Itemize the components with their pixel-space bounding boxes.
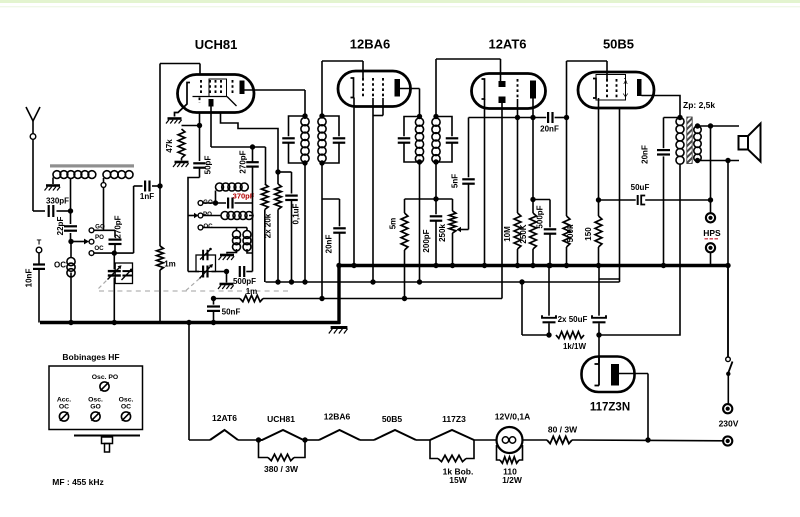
node bus 50uF1	[546, 263, 551, 268]
wire 50B5 screen pin	[619, 108, 621, 282]
svg-text:Osc.: Osc.	[119, 397, 134, 404]
svg-text:50pF: 50pF	[204, 156, 213, 175]
wire osc varcap row	[188, 216, 227, 272]
wire heater 6	[523, 439, 548, 441]
coil feedback left	[227, 228, 241, 254]
resistor 20k right	[263, 184, 281, 282]
node varcap top	[112, 250, 117, 255]
resistor 20k left	[261, 147, 268, 282]
svg-text:Acc.: Acc.	[57, 397, 71, 404]
tube 50B5 envelope	[578, 72, 654, 108]
svg-text:380 / 3W: 380 / 3W	[264, 464, 299, 474]
resistor 47k	[165, 126, 200, 161]
tap circle	[101, 178, 106, 187]
coil oscillator PO	[203, 212, 253, 220]
node anode junction	[530, 115, 535, 120]
resistor 80/3W	[547, 425, 578, 444]
node OC coil to bus	[68, 320, 73, 325]
node AVC IFT1	[319, 296, 324, 301]
node 150 bus	[596, 263, 601, 268]
gang dashed diagonal ant	[99, 280, 108, 289]
coil L1 antenna	[53, 171, 96, 184]
svg-text:22pF: 22pF	[56, 217, 65, 236]
svg-text:20nF: 20nF	[540, 125, 559, 134]
node screen bypass	[275, 169, 280, 174]
wire UCH81 anode	[245, 90, 306, 117]
UCH81 cathode	[175, 83, 191, 117]
svg-text:1k/1W: 1k/1W	[563, 342, 587, 351]
svg-text:330pF: 330pF	[46, 197, 69, 206]
12AT6 grid	[517, 79, 519, 99]
trimmer capacitor osc	[200, 248, 212, 261]
svg-text:500k: 500k	[566, 224, 575, 242]
node 12BA6 screen	[370, 279, 375, 284]
svg-text:117Z3: 117Z3	[442, 414, 466, 424]
rail B+ row	[266, 281, 620, 283]
capacitor 1nF	[134, 181, 160, 202]
wire secondary top	[695, 123, 739, 128]
node bus right end	[725, 263, 730, 268]
bobinages mount	[74, 436, 140, 453]
node varcap to bus	[112, 320, 117, 325]
ground feedback coil	[219, 255, 235, 260]
node IFT2 secondary top	[433, 114, 438, 119]
node 1nF junction	[157, 183, 162, 188]
capacitor 500pF AF	[533, 200, 556, 266]
capacitor 500pF osc	[233, 266, 256, 286]
tube UCH81 envelope	[178, 75, 255, 113]
node 12BA6 cathode bus	[351, 263, 356, 268]
wire 12AT6 grid pin	[517, 99, 519, 118]
capacitor main CV2	[200, 264, 214, 279]
IFT1 secondary coil	[318, 118, 326, 163]
IFT2 secondary coil	[432, 118, 440, 163]
svg-text:12BA6: 12BA6	[350, 37, 390, 52]
wire UCH81 screen pin	[221, 113, 279, 185]
capacitor 270pF antenna	[109, 215, 123, 244]
capacitor 22pF	[56, 211, 77, 242]
node anode transformer top	[677, 115, 682, 120]
svg-text:GO: GO	[95, 223, 105, 230]
wire to node	[57, 210, 71, 212]
12AT6 anode	[530, 81, 536, 99]
node IFT1 secondary bottom	[319, 160, 324, 165]
node 500k bus	[564, 263, 569, 268]
UCH81 separator	[193, 97, 237, 107]
switch contact GO ant	[89, 223, 105, 232]
svg-text:1/2W: 1/2W	[502, 475, 523, 485]
wire coil tap	[70, 178, 72, 211]
wire 50B5 grid top	[567, 61, 608, 118]
capacitor 50uF filter 1	[542, 266, 556, 336]
12AT6 cathode	[482, 79, 485, 99]
coil feedback right	[243, 228, 253, 254]
switch contact OC osc	[198, 223, 213, 230]
switch contact GO osc	[198, 199, 213, 206]
node heater UCH81 left	[256, 437, 261, 442]
svg-text:GO: GO	[90, 404, 101, 411]
ground antenna coil	[45, 186, 61, 191]
svg-text:10nF: 10nF	[25, 269, 34, 288]
node B+ filter	[519, 279, 524, 284]
node bus step corner	[336, 263, 341, 268]
wire IFT2 primary bottom	[419, 162, 421, 282]
node cathode 50uF	[596, 197, 601, 202]
50B5 beam plate marks	[623, 76, 629, 102]
label HPS	[703, 228, 721, 239]
svg-text:5nF: 5nF	[451, 174, 460, 188]
tube label 12AT6	[488, 37, 526, 52]
resistor 380/3W	[259, 440, 306, 474]
wire GO contact	[94, 230, 115, 237]
svg-text:5m: 5m	[389, 218, 398, 230]
svg-text:OC: OC	[94, 245, 104, 252]
wire heater drop	[188, 323, 190, 441]
wire 12AT6 anode pin	[532, 99, 534, 118]
wire heater 3	[360, 439, 374, 441]
ground bus step	[337, 266, 340, 325]
svg-text:2x 50uF: 2x 50uF	[558, 315, 588, 324]
wire heater start	[189, 439, 210, 441]
tube 12AT6 envelope	[472, 74, 546, 109]
speaker	[739, 124, 761, 162]
svg-text:50B5: 50B5	[382, 414, 403, 424]
IFT1 primary capacitor	[282, 116, 305, 163]
svg-text:12BA6: 12BA6	[324, 412, 351, 422]
12AT6 diode plates	[499, 81, 506, 103]
capacitor 50nF	[207, 299, 240, 323]
svg-text:1m: 1m	[164, 260, 176, 269]
50B5 anode	[637, 79, 642, 96]
node 20nF bus	[661, 263, 666, 268]
node detector junction	[433, 196, 438, 201]
node speaker bottom	[725, 158, 730, 163]
node IFT1 secondary top	[319, 113, 324, 118]
node heater bus	[186, 320, 191, 325]
wire 50B5 anode	[642, 96, 681, 118]
screw Osc PO	[100, 382, 109, 391]
wire primary bottom B+	[599, 164, 680, 335]
wire HPS vertical	[710, 126, 712, 213]
svg-text:HPS: HPS	[703, 228, 721, 238]
capacitor 5nF	[451, 118, 475, 230]
wire 12BA6 grid top	[322, 61, 363, 116]
variable capacitor CV1 antenna	[108, 253, 122, 322]
svg-text:12V/0,1A: 12V/0,1A	[495, 412, 530, 422]
antenna	[26, 107, 40, 134]
svg-text:PO: PO	[95, 234, 104, 241]
node IFT1 primary top	[302, 113, 307, 118]
ground bus right	[338, 264, 729, 267]
gang dashed diagonal osc	[186, 279, 200, 291]
wire 12BA6 cathode pin	[353, 98, 355, 266]
UCH81 heptode anode	[240, 81, 245, 95]
green header band	[0, 0, 800, 7]
node filter1	[546, 332, 551, 337]
switch contact OC ant	[89, 245, 104, 255]
UCH81 triode anode	[209, 99, 214, 107]
svg-text:50B5: 50B5	[603, 37, 634, 52]
node 47k junction	[197, 123, 202, 128]
wire 270pF to varcap	[114, 244, 116, 253]
terminal mains bottom	[723, 436, 732, 445]
svg-text:12AT6: 12AT6	[488, 37, 526, 52]
wire heater 5	[474, 439, 497, 441]
node B+ 20k	[275, 279, 280, 284]
wire UCH81 grid top	[160, 64, 200, 187]
wire OC contact to varcap	[94, 252, 134, 254]
gang dashed line	[99, 290, 290, 292]
tube label 117Z3N	[590, 402, 630, 414]
wire rectifier cathode	[598, 335, 600, 363]
node IFT2 primary bottom	[417, 159, 422, 164]
coil oscillator GO	[216, 183, 249, 203]
node 10M bus	[515, 263, 520, 268]
svg-text:OC: OC	[54, 260, 66, 269]
label Acc OC	[57, 397, 71, 411]
wire 12AT6 grid top	[436, 59, 501, 117]
trimmer capacitor antenna	[122, 269, 133, 281]
heater 50B5	[374, 414, 416, 440]
117Z3N cathode	[595, 357, 600, 386]
node IFT2 primary B+	[417, 279, 422, 284]
capacitor 20nF coupling	[540, 112, 566, 134]
transformer core	[687, 117, 692, 164]
svg-text:UCH81: UCH81	[195, 37, 238, 52]
antenna terminal circle	[30, 134, 36, 140]
svg-text:500pF: 500pF	[233, 277, 256, 286]
node junction 330pF/22pF	[68, 208, 73, 213]
node 12AT6 cathode bus	[482, 263, 487, 268]
wiper arrow antenna switch	[73, 239, 89, 245]
117Z3N anode	[611, 364, 619, 386]
svg-text:230V: 230V	[719, 419, 739, 429]
IFT1 primary coil	[301, 116, 309, 162]
svg-text:250k: 250k	[438, 224, 447, 242]
capacitor 10nF	[25, 253, 46, 323]
IFT2 secondary capacitor	[436, 117, 458, 163]
wire antenna down	[33, 139, 45, 211]
wire heater end	[572, 439, 724, 442]
svg-text:47k: 47k	[165, 139, 174, 153]
svg-text:270pF: 270pF	[239, 150, 248, 173]
svg-text:Y: Y	[623, 92, 629, 102]
wire IFT2 secondary bottom	[435, 162, 437, 199]
transformer secondary coil	[694, 126, 701, 161]
node B+ IFT1	[302, 279, 307, 284]
label 2x 50uF	[558, 315, 588, 324]
rail AVC row	[214, 287, 503, 302]
wire to 0.1uF	[278, 172, 292, 194]
svg-text:OC: OC	[203, 223, 213, 230]
12BA6 cathode	[351, 78, 354, 98]
ground 500pF node	[218, 272, 234, 290]
svg-text:50nF: 50nF	[222, 308, 241, 317]
svg-text:370pF: 370pF	[233, 192, 255, 201]
wire screen bypass 20nF	[322, 199, 346, 264]
terminal HPS top	[706, 213, 715, 222]
svg-text:Osc. PO: Osc. PO	[92, 374, 118, 381]
terminal mains top	[723, 404, 732, 413]
node heater rectifier	[645, 437, 650, 442]
coil L2 antenna	[103, 171, 133, 179]
trimmer box antenna	[115, 263, 132, 284]
wire heater 2	[305, 439, 319, 441]
svg-text:PO: PO	[203, 211, 212, 218]
label Osc PO	[92, 374, 118, 381]
resistor 110 1/2W	[497, 445, 523, 485]
terminal HPS bottom	[706, 243, 715, 252]
node IFT1 primary bottom	[302, 160, 307, 165]
wire IFT1 secondary bottom	[321, 163, 323, 299]
label Osc GO	[88, 397, 103, 411]
tube label UCH81	[195, 37, 238, 52]
IFT2 primary coil	[415, 118, 423, 163]
node 250K bus	[530, 263, 535, 268]
resistor 1k Bob 15W	[430, 440, 474, 485]
resistor 10M	[503, 118, 521, 266]
50B5 inner box	[596, 75, 626, 101]
wire L2 down	[103, 188, 105, 231]
bobinages box	[49, 366, 143, 430]
wire 12BA6 anode	[400, 89, 420, 118]
lamp 12V/0.1A	[495, 412, 530, 454]
resistor 1k/1W	[556, 332, 587, 351]
heater 12BA6	[319, 412, 360, 441]
node GO coil	[213, 200, 218, 205]
tube label 50B5	[603, 37, 634, 52]
capacitor 0.1uF	[285, 196, 300, 282]
node grid 10M	[515, 115, 520, 120]
label Zp	[683, 100, 715, 110]
transformer primary coil	[676, 118, 684, 165]
wire 1nF branch down	[133, 186, 135, 253]
svg-text:OC: OC	[121, 404, 131, 411]
node 20nF to 500k	[564, 115, 569, 120]
resistor 5m AVC	[389, 199, 436, 299]
node IFT2 primary top	[417, 114, 422, 119]
capacitor 330pF	[46, 197, 69, 218]
label Bobinages HF	[62, 352, 119, 362]
svg-text:Bobinages HF: Bobinages HF	[62, 352, 119, 362]
ground UCH81 cathode	[166, 119, 182, 124]
node filter2	[596, 332, 601, 337]
wire 12AT6 diode pin	[501, 103, 503, 299]
ground 47k	[173, 162, 189, 167]
wire 117Z3N anode	[619, 374, 648, 441]
wire B+ to filter	[522, 282, 549, 335]
coil OC antenna	[54, 242, 75, 323]
wire osc right vertical	[252, 147, 254, 272]
IFT1 secondary capacitor	[322, 116, 345, 163]
wire secondary bottom	[695, 158, 739, 163]
switch mains	[726, 266, 733, 405]
UCH81 inner box	[209, 79, 227, 97]
wiper volume pot	[457, 227, 469, 232]
node 50nF bus	[211, 320, 216, 325]
heater 12AT6	[210, 413, 238, 440]
12BA6 anode	[395, 79, 401, 97]
svg-text:15W: 15W	[449, 475, 467, 485]
svg-text:T: T	[37, 238, 42, 247]
node 5m to AVC line	[402, 296, 407, 301]
node B+ 0.1uF	[289, 279, 294, 284]
screw Osc GO	[91, 412, 100, 421]
node 500pF	[224, 269, 229, 274]
12BA6 grids	[363, 78, 383, 98]
wire IFT1 primary bottom	[304, 163, 306, 282]
resistor 150	[584, 200, 602, 266]
svg-text:50uF: 50uF	[631, 183, 650, 192]
svg-text:20nF: 20nF	[640, 145, 649, 164]
wire AF line	[469, 117, 547, 119]
node 200pF bus	[433, 263, 438, 268]
svg-text:20nF: 20nF	[325, 235, 334, 254]
wire HPS to bus	[710, 252, 712, 264]
label Osc OC	[119, 397, 134, 411]
svg-text:12AT6: 12AT6	[212, 413, 237, 423]
svg-text:2x 20k: 2x 20k	[263, 213, 272, 238]
svg-text:117Z3N: 117Z3N	[590, 402, 630, 414]
wire screen jog	[599, 278, 620, 280]
ground chassis symbol	[329, 328, 348, 334]
tube label 12BA6	[350, 37, 390, 52]
label MF 455	[52, 477, 104, 487]
switch contact PO osc	[198, 211, 212, 218]
svg-text:OC: OC	[59, 404, 69, 411]
UCH81 grids heptode	[201, 80, 233, 94]
ground bus left	[40, 321, 340, 324]
50B5 cathode	[593, 79, 596, 99]
UCH81 triode grid	[199, 98, 201, 104]
screw Osc OC	[121, 412, 130, 421]
svg-text:150: 150	[584, 227, 593, 241]
node 22pF/OC coil	[68, 239, 73, 244]
wire heater 1	[238, 439, 259, 441]
tube 12BA6 envelope	[338, 71, 411, 107]
node IFT2 secondary bottom	[433, 159, 438, 164]
wire speaker return	[727, 161, 729, 358]
label 230V	[719, 419, 739, 429]
svg-text:Osc.: Osc.	[88, 397, 103, 404]
svg-text:10M: 10M	[503, 226, 512, 242]
wire 50B5 cathode pin	[598, 98, 600, 200]
svg-text:MF : 455 kHz: MF : 455 kHz	[52, 477, 104, 487]
resistor 1m grid leak	[157, 186, 176, 323]
tube 117Z3N envelope	[582, 357, 635, 393]
node speaker top	[708, 123, 713, 128]
capacitor 270pF oscillator	[239, 150, 259, 173]
svg-text:UCH81: UCH81	[267, 414, 295, 424]
svg-text:270pF: 270pF	[114, 215, 123, 238]
node AVC 50nF	[211, 296, 216, 301]
wire heater 4	[416, 439, 430, 441]
capacitor 50uF	[599, 183, 711, 205]
capacitor 200pF	[422, 199, 442, 266]
node 50uF junction	[708, 197, 713, 202]
wire UCH81 cathode pin	[199, 113, 201, 162]
wire OC osc contact	[203, 227, 247, 229]
svg-text:80 / 3W: 80 / 3W	[548, 425, 578, 435]
svg-text:200pF: 200pF	[422, 229, 431, 252]
resistor 250K	[519, 118, 536, 266]
ferrite rod	[50, 164, 134, 167]
capacitor 20nF output	[640, 118, 680, 266]
node heater UCH81 right	[302, 437, 307, 442]
heater UCH81	[259, 414, 306, 440]
heater 117Z3	[430, 414, 474, 440]
svg-text:500pF: 500pF	[535, 205, 544, 228]
